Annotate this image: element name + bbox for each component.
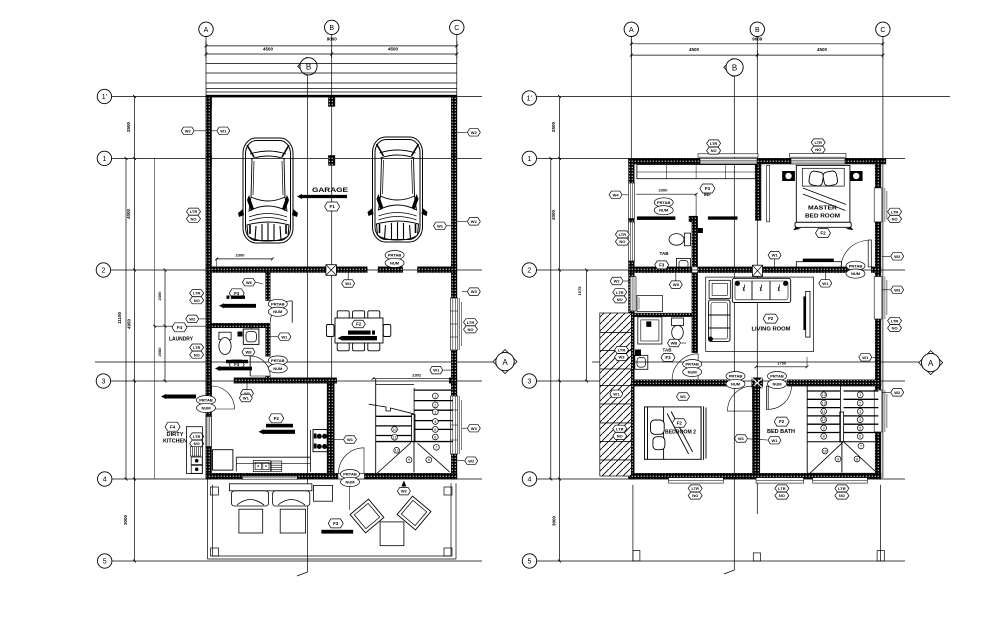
terrace tables [239,509,263,533]
grid row line 2 (right plan) [537,269,906,271]
label W1 below row2 [819,280,832,288]
svg-text:KITCHEN: KITCHEN [163,439,187,445]
label LTR NO below row4 3 [835,485,849,492]
svg-text:6: 6 [859,435,861,439]
section marker A (right plan) [919,351,943,375]
laundry-toilet divider wall [212,323,271,328]
closet half wall [637,216,676,220]
label F1 garage [325,202,340,211]
label PRTAB NUM garage [385,251,404,268]
svg-text:F2: F2 [820,231,826,236]
svg-text:F3: F3 [659,263,665,268]
svg-text:F3: F3 [234,291,240,296]
top exterior wall (right plan) [629,158,886,164]
svg-text:LTR: LTR [190,209,198,214]
label W1 stairs [430,366,443,374]
svg-text:11: 11 [393,436,397,440]
left exterior wall (left plan) [206,97,212,480]
closet mirror [767,165,770,221]
label PRTAB NUM toilet [268,356,287,373]
svg-text:F4: F4 [177,325,183,330]
svg-text:9: 9 [823,426,825,430]
label W3 right outside dining [467,288,480,296]
label F3 laundry [229,289,244,298]
garage canopy lines [206,63,457,65]
toilet door arc [250,356,270,376]
svg-text:8: 8 [428,458,430,462]
svg-text:NO: NO [191,216,197,221]
svg-text:4500: 4500 [689,47,700,52]
svg-text:4500: 4500 [388,47,399,52]
section line A horizontal (right plan) [592,361,919,363]
svg-text:3: 3 [434,410,436,414]
toilet arrow bar [215,366,252,371]
stairs right plan bottom diagonals [808,442,843,475]
grid row line T (left plan) [112,96,482,98]
corridor vanity rect [637,296,663,312]
svg-text:F3: F3 [665,355,671,360]
svg-text:1': 1' [102,94,107,101]
svg-text:2302: 2302 [412,372,422,377]
bath2 door arc [672,354,698,380]
TOILET text bar [226,360,248,363]
label WB bath2 [668,339,681,347]
closet dim 2300 [636,193,696,195]
label F2 kitchen [269,414,284,423]
grid row line 4 (right plan) [537,478,906,480]
svg-text:NUM: NUM [201,405,211,410]
left dimension line total 11150 [125,158,127,479]
laundry arrow bar [219,303,256,308]
TAB toilet fixture [669,233,691,246]
svg-text:12: 12 [395,449,399,453]
svg-text:8: 8 [823,435,825,439]
svg-text:PRTAB: PRTAB [685,362,699,367]
inner dimension line 1075 (right plan) [586,270,588,381]
kitchen sink [253,461,270,472]
svg-text:F2: F2 [274,416,280,421]
svg-text:BEDROOM 2: BEDROOM 2 [665,430,696,436]
svg-text:PRTAB: PRTAB [388,253,402,258]
row4 window sill 2 [756,478,804,484]
label LTR NO right dining [464,319,478,326]
stairs right plan number circles [821,392,827,398]
svg-text:A: A [928,359,934,368]
label LTR NO left 3 [190,344,204,351]
svg-text:INF: INF [704,192,712,197]
left wall window 1 (closet) [628,183,634,219]
living side table [709,280,730,298]
label PRTAB NUM laundry [268,299,287,316]
label F2 dining [352,320,366,328]
label F3 terrace with bar [328,519,343,528]
grid bubble 3 (left plan) [96,374,110,388]
closet hatch block [689,216,695,222]
svg-text:LTR: LTR [193,345,201,350]
section line B vertical (left plan) [307,75,309,572]
grid column line B (left plan) [331,35,333,479]
bedbath door arc [768,386,791,409]
grid row line 3 (left plan) [111,380,482,382]
label W2 left outside laundry [186,315,199,323]
svg-text:F2: F2 [356,322,362,327]
svg-text:F3: F3 [333,521,339,526]
label LTR NO strip 3 [613,425,627,432]
black tile TAB [698,228,703,233]
grid row line 5 (right plan) [537,560,906,562]
right exterior wall (left plan) [451,97,457,480]
label F3 INF closet [700,184,715,193]
svg-text:PRTAB: PRTAB [770,374,784,379]
svg-text:W1: W1 [281,334,288,339]
svg-text:LAUNDRY: LAUNDRY [169,337,194,343]
grid bubble T (right plan) [522,91,536,105]
svg-text:W1: W1 [772,438,779,443]
label F2 bedroom2 [672,419,686,428]
svg-text:3: 3 [101,379,105,386]
section marker B (left plan) [298,57,317,75]
svg-text:2500: 2500 [126,121,131,132]
label W2 right living [891,286,904,294]
svg-text:2500: 2500 [551,121,556,132]
top dimension line 4500+4500 (left plan) [206,53,457,55]
grid column line A (left plan) [205,37,207,480]
closet half wall right segment [708,216,738,219]
svg-text:W2: W2 [189,317,196,322]
svg-text:NO: NO [692,493,698,498]
label W8 toilet [242,348,255,356]
row3 wall segment left [206,378,212,383]
svg-text:NUM: NUM [273,309,283,314]
top wall window 2 (master) [791,158,845,164]
svg-text:W1: W1 [433,368,440,373]
svg-text:MASTER: MASTER [808,206,837,212]
terrace armchair 2 [397,496,431,530]
master door leaf [868,240,871,267]
svg-text:WB: WB [671,341,678,346]
svg-text:W2: W2 [614,279,621,284]
svg-text:10: 10 [823,449,827,453]
label W2 left row2 [610,277,623,285]
svg-text:W1: W1 [613,391,620,396]
svg-text:F3: F3 [705,186,711,191]
label W2 left outside garage [181,127,194,135]
stairs right plan center rail [840,412,844,442]
kitchen counter along bottom [236,456,310,458]
svg-text:1: 1 [859,393,861,397]
window right wall dining [450,298,458,350]
svg-text:LTR: LTR [838,486,846,491]
stairs left plan - outline [375,379,377,475]
closet cabinets [637,165,755,179]
top wall window 1 (closet) [700,158,757,164]
grid bubble 2 (right plan) [522,263,536,277]
label W2 terrace [397,487,410,495]
garage front header (thick) [206,95,457,98]
right wall window 1 (master) [874,188,882,222]
junction X-square B row2 (right plan) [752,265,762,276]
svg-text:NO: NO [194,441,200,446]
svg-text:7: 7 [860,444,862,448]
terrace bench seats [229,484,312,506]
kitchen arrow bar [259,429,296,434]
master bed side table right [850,171,863,181]
stairs left plan - left flight steps [376,415,412,417]
grid row line 1 (left plan) [112,157,482,159]
svg-text:B: B [755,27,760,34]
label LTR NO below row4 1 [688,485,702,492]
KITCHEN text bar [266,424,293,428]
toilet fixture [219,332,231,354]
svg-text:NO: NO [619,239,625,244]
master bed side table left [782,171,795,181]
label W3 right outside stairs [467,424,480,432]
svg-text:A: A [629,27,634,34]
svg-text:B: B [732,63,737,72]
stairs left plan - right flight steps [414,389,452,391]
svg-text:W1: W1 [862,355,869,360]
svg-text:DIRTY: DIRTY [167,432,185,438]
kitchen island [213,450,233,470]
svg-text:F1: F1 [329,204,335,209]
grid bubble 5 (right plan) [522,554,536,568]
svg-text:PRTAB: PRTAB [271,301,285,306]
right exterior wall (right plan) [875,158,881,479]
label PRTAB NUM bath2 [683,360,702,377]
closet right wall [755,164,761,220]
toilet right wall [266,328,271,357]
row3 wall (right plan) segment 2 [752,378,763,388]
label W6 laundry [242,278,255,286]
label LTR W3 strip 2 [615,346,629,353]
svg-text:4500: 4500 [263,47,274,52]
toilet black tile [238,332,243,337]
svg-text:4: 4 [434,420,436,424]
grid row line T (right plan) [537,96,951,98]
top dimension line 9000 (left plan) [206,45,457,47]
living TV console [806,291,810,337]
svg-text:PRTAB: PRTAB [343,472,357,477]
label W2 right outside garage [467,129,480,137]
svg-text:2: 2 [434,403,436,407]
svg-text:LTR: LTR [618,348,626,353]
row3 wall (right plan) segment 3 [787,380,881,386]
svg-text:F2: F2 [768,316,774,321]
kitchen drainboard [271,461,282,472]
stairs break line [369,404,414,414]
label W1 strip [610,390,623,398]
left wall window 2 (TAB) [628,222,634,261]
laundry divider extension line [155,325,212,327]
row2 wall (right plan) segment 3 [871,267,881,273]
svg-text:W3: W3 [471,289,478,294]
svg-text:LIVING ROOM: LIVING ROOM [752,326,791,332]
left exterior wall (right plan) [629,158,635,479]
svg-text:2300: 2300 [236,253,246,258]
svg-text:NO: NO [194,352,200,357]
svg-text:6: 6 [434,435,436,439]
label W1 row2 door [342,280,355,288]
svg-text:8: 8 [856,457,858,461]
svg-text:NO: NO [617,297,623,302]
svg-text:LTR: LTR [891,318,899,323]
grid bubble 1 (left plan) [97,151,111,165]
label F3 toilet [229,360,244,369]
svg-text:W2: W2 [185,128,192,133]
top dimension line 4500+4500 (right plan) [631,54,883,56]
svg-text:5: 5 [103,559,107,566]
svg-text:PRTAB: PRTAB [657,200,671,205]
laundry right wall upper [266,273,271,301]
window right wall stairs [450,396,458,454]
svg-text:NUM: NUM [688,369,698,374]
svg-text:1: 1 [434,394,436,398]
label F2 living [763,314,778,323]
label F3 bath2 [661,354,675,362]
svg-text:W2: W2 [894,390,901,395]
label LTR NO left wall [187,208,201,215]
label F3 TAB upper [655,261,669,269]
bedroom2 door arc [728,386,753,411]
svg-text:C: C [880,27,885,34]
svg-text:W8: W8 [673,282,680,287]
svg-text:W6: W6 [246,280,253,285]
svg-text:9: 9 [408,458,410,462]
living sofa L-shape [709,278,791,341]
svg-text:NO: NO [839,493,845,498]
junction block A row1 [206,155,212,165]
grid bubble 4 (left plan) [98,472,112,486]
label PRTAB NUM bedbath [768,372,787,389]
svg-text:LTR: LTR [778,486,786,491]
grid bubble C (right plan) [876,22,890,36]
section line A horizontal (left plan) [95,361,493,363]
label W4 left outside closet [609,191,622,199]
label W8 TAB upper [669,281,682,289]
svg-text:NO: NO [779,493,785,498]
svg-text:BED BATH: BED BATH [767,429,795,435]
svg-text:W3: W3 [894,287,901,292]
svg-text:NUM: NUM [772,381,782,386]
grid bubble A (right plan) [624,22,638,36]
terrace outline right plan [632,485,634,561]
svg-text:W1: W1 [738,436,745,441]
stairs right plan outline [806,386,808,473]
svg-text:11150: 11150 [117,312,122,325]
label W1 bedroom2 window [677,393,690,401]
svg-text:W1: W1 [437,223,444,228]
grid column line C (right plan) [882,37,884,479]
grid row line 1 (right plan) [537,157,906,159]
svg-text:12: 12 [822,402,826,406]
laundry door arc [270,301,292,323]
kitchen left wall window [206,417,211,447]
top wall window sill 1 [698,154,758,157]
svg-text:F4: F4 [170,424,176,429]
svg-text:4000: 4000 [551,209,556,220]
label W2 right outside 2 [467,218,480,226]
junction block C row1 [451,155,457,165]
svg-text:LTR: LTR [467,320,475,325]
svg-text:W3: W3 [619,355,626,360]
svg-text:3: 3 [859,410,861,414]
kitchen right wall [327,383,334,473]
svg-text:NUM: NUM [273,366,283,371]
black arrow left margin [161,394,196,399]
svg-text:NO: NO [815,147,821,152]
svg-text:9000: 9000 [327,37,338,42]
svg-text:LTR: LTR [193,291,201,296]
svg-text:3000: 3000 [123,514,128,525]
svg-text:10: 10 [822,418,826,422]
row3 wall block at stairs right [449,378,457,383]
row2 wall segment 2 [378,267,403,273]
row3 wall (right plan) segment 1 [634,380,727,386]
svg-text:LTR: LTR [616,426,624,431]
stairs left plan - center rail [412,415,416,442]
grid bubble 3 (right plan) [522,374,536,388]
left wall window 3 (bath2) [630,277,636,312]
dirty kitchen fixtures [186,427,202,474]
row4 window sill 3 [813,478,868,484]
hall terrace door arc [339,448,365,474]
svg-text:2: 2 [101,268,105,275]
label W2 right master [891,253,904,260]
svg-text:LTR: LTR [814,140,822,145]
section line B vertical (right plan) [733,76,735,570]
wall stub top A [206,97,212,108]
svg-text:PRTAB: PRTAB [729,374,743,379]
wall stub top B [328,97,335,106]
terrace corner squares right plan [633,551,640,562]
svg-text:W4: W4 [613,192,620,197]
svg-text:W2: W2 [894,254,901,259]
svg-text:NO: NO [892,217,898,222]
svg-text:PRTAB: PRTAB [849,263,863,268]
car 2 in garage [368,137,428,242]
svg-text:4: 4 [103,477,107,484]
junction block B row1 [328,155,335,165]
stairs bottom diagonals [377,443,411,474]
svg-text:F2: F2 [779,419,785,424]
label LTR NO dirty kitchen [190,433,204,440]
bath2 black tiles [646,321,651,327]
label F4 dirty kitchen [165,422,180,431]
label W1 right garage [434,222,447,230]
row2 wall segment 3 [418,267,457,273]
svg-text:W2: W2 [468,458,475,463]
label LTR NO below row4 2 [775,485,789,492]
svg-text:W1: W1 [220,128,227,133]
top wall window sill 2 [790,153,847,157]
svg-text:W1: W1 [822,281,829,286]
svg-text:4: 4 [528,477,532,484]
row4 wall segment 2 (left plan) [364,473,456,479]
label LTR NO left 2 [190,290,204,297]
svg-text:2300: 2300 [659,188,669,193]
window sill below kitchen wall [242,476,297,479]
section marker A (left plan) [493,350,517,374]
svg-text:LTR: LTR [616,290,624,295]
svg-text:W2: W2 [471,219,478,224]
stairs right plan left flight steps [807,390,840,392]
row4 wall segment 1 (left plan) [206,473,338,479]
svg-text:LTR: LTR [619,232,627,237]
svg-text:4500: 4500 [817,47,828,52]
row2 wall (right plan) segment 2 [698,267,849,273]
svg-text:NUM: NUM [851,271,861,276]
svg-text:NO: NO [711,148,717,153]
